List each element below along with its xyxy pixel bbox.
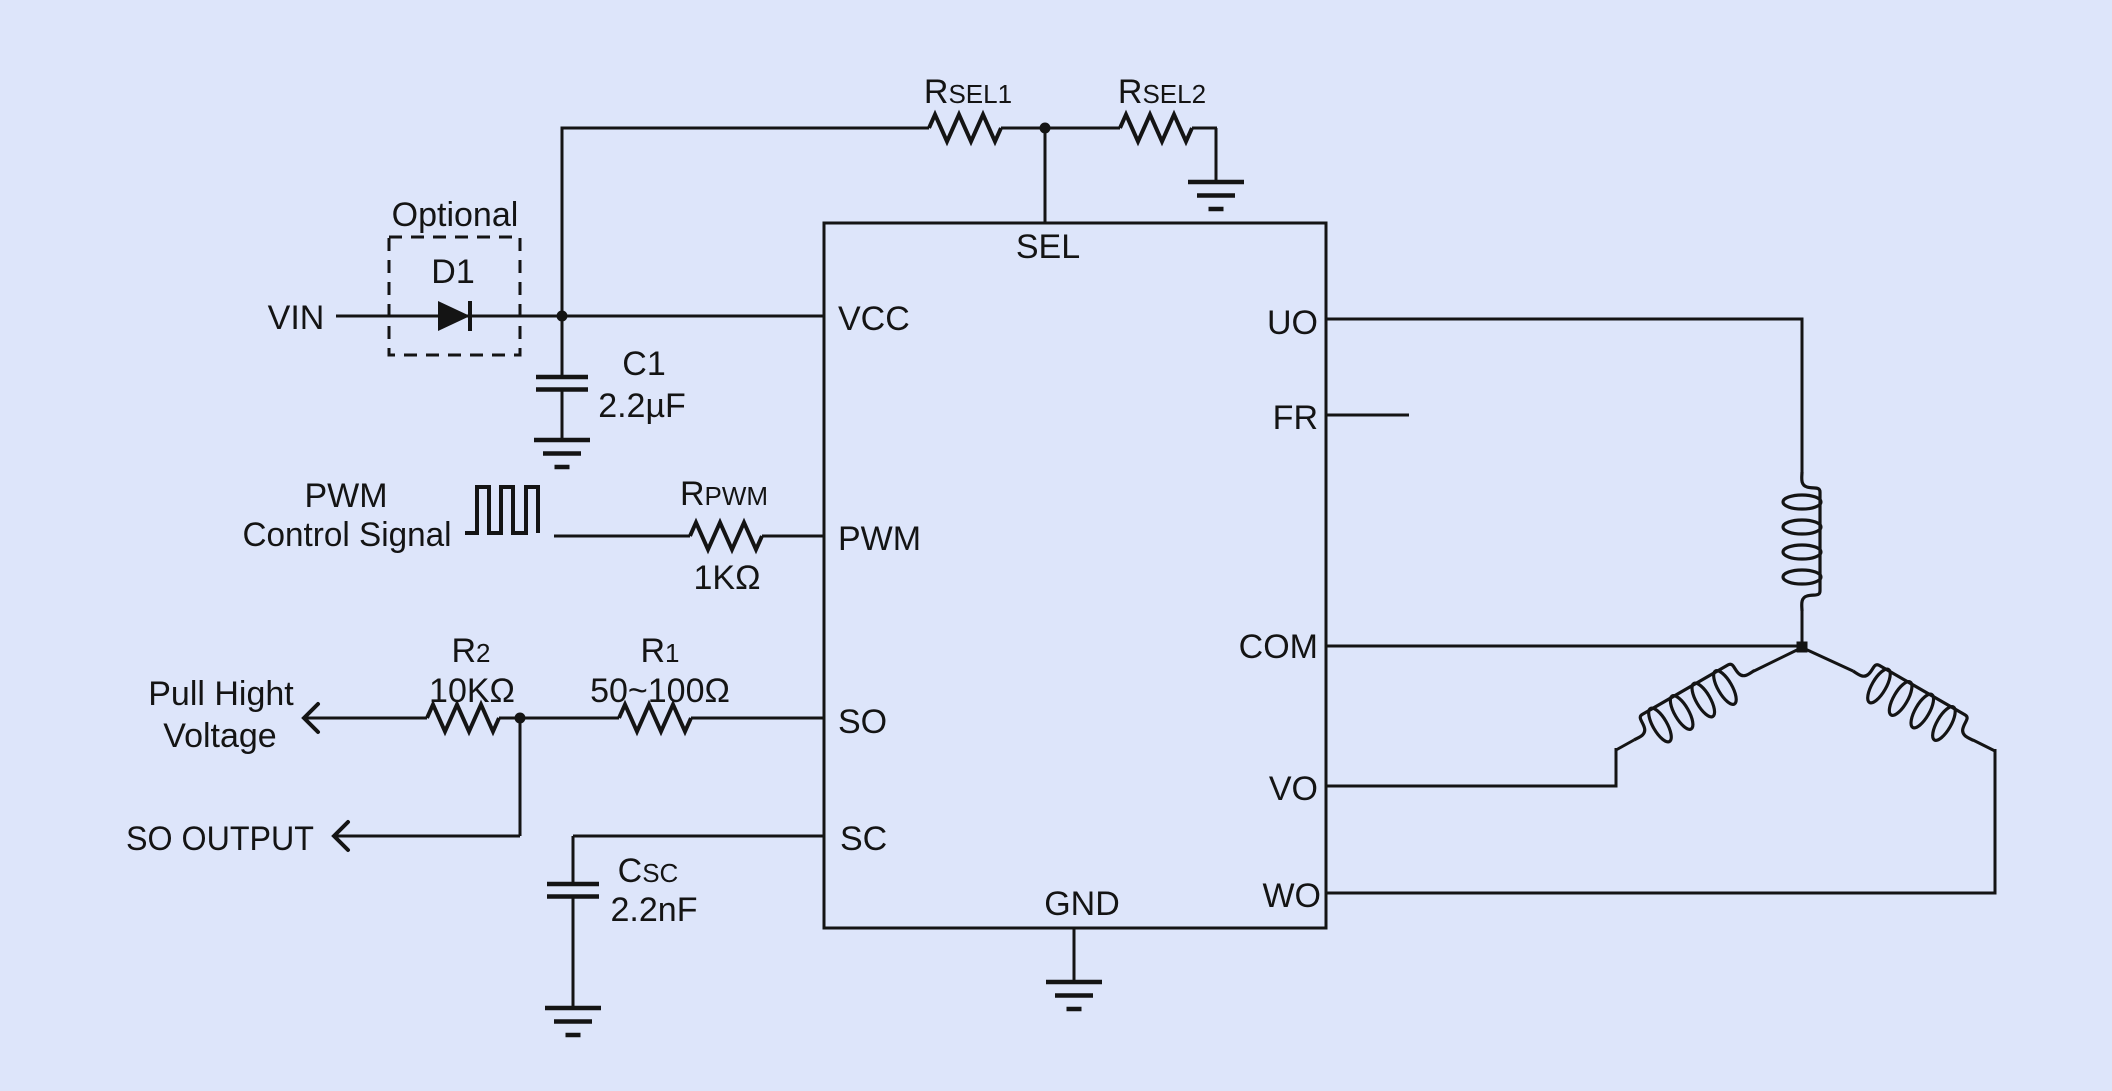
svg-text:SO: SO	[838, 703, 887, 741]
svg-text:COM: COM	[1239, 628, 1318, 666]
resistor RSEL2	[1120, 115, 1192, 142]
svg-text:SO OUTPUT: SO OUTPUT	[126, 820, 314, 858]
svg-text:VIN: VIN	[268, 299, 325, 337]
inductor U winding	[1783, 472, 1821, 611]
wire WO pin to winding	[1326, 892, 1997, 895]
svg-text:WO: WO	[1262, 877, 1321, 915]
wire CSC to ground	[572, 898, 575, 1008]
wire FR stub	[1326, 414, 1409, 417]
ground (C1)	[534, 438, 590, 443]
wire UO to U winding	[1326, 318, 1802, 321]
svg-text:CSC: CSC	[618, 852, 679, 890]
diode D1	[438, 301, 470, 331]
svg-text:SC: SC	[840, 820, 887, 858]
svg-text:10KΩ: 10KΩ	[429, 672, 515, 710]
inductor V winding	[1625, 654, 1764, 756]
svg-text:Pull Hight: Pull Hight	[148, 675, 294, 713]
wire C1 to ground	[561, 391, 564, 440]
svg-text:UO: UO	[1267, 304, 1318, 342]
svg-text:50~100Ω: 50~100Ω	[590, 672, 730, 710]
resistor R1	[619, 705, 691, 732]
svg-text:PWM: PWM	[304, 477, 387, 515]
node VCC junction dot	[557, 311, 568, 322]
wire VO pin to winding	[1326, 785, 1618, 788]
svg-text:Optional: Optional	[392, 196, 519, 234]
wire node SEL down to pin SEL	[1044, 128, 1047, 223]
svg-text:RSEL1: RSEL1	[924, 73, 1012, 111]
svg-text:Voltage: Voltage	[163, 717, 276, 755]
resistor RSEL1	[929, 115, 1001, 142]
svg-text:D1: D1	[431, 253, 474, 291]
wire GND pin to ground	[1073, 928, 1076, 982]
svg-text:R1: R1	[640, 632, 679, 670]
svg-text:RSEL2: RSEL2	[1118, 73, 1206, 111]
ground (GND pin)	[1046, 980, 1102, 985]
resistor RPWM	[690, 523, 762, 550]
wire R2 to node	[499, 717, 520, 720]
wire SC pin to CSC	[573, 835, 824, 838]
ground (RSEL2)	[1188, 180, 1244, 185]
wire star to W winding	[1803, 648, 1853, 671]
wire squarewave to RPWM	[554, 535, 690, 538]
inductor W winding	[1844, 655, 1983, 757]
arrow SO OUTPUT	[334, 822, 348, 850]
capacitor C1	[561, 316, 564, 375]
capacitor CSC	[547, 882, 599, 887]
wire W winding to WO corner	[1973, 740, 1995, 751]
svg-text:RPWM: RPWM	[680, 475, 768, 513]
arrow to pull high voltage	[304, 704, 318, 732]
wire RSEL2 to ground	[1192, 127, 1217, 130]
wire RPWM to PWM pin	[762, 535, 824, 538]
wire VCC node vertical riser to top rail	[561, 128, 564, 316]
wire RSEL1 to node SEL	[1001, 127, 1120, 130]
wire top rail to RSEL1	[561, 127, 930, 130]
wire U winding to star node	[1801, 611, 1804, 644]
svg-text:VCC: VCC	[838, 300, 910, 338]
svg-text:PWM: PWM	[838, 520, 921, 558]
wire VIN to VCC pin	[336, 315, 824, 318]
ground (CSC)	[545, 1006, 601, 1011]
svg-text:FR: FR	[1273, 399, 1318, 437]
optional dashed box	[389, 237, 520, 355]
wire node down to SO OUTPUT rail	[519, 718, 522, 836]
wire star to V winding	[1754, 648, 1801, 671]
svg-text:VO: VO	[1269, 770, 1318, 808]
svg-text:GND: GND	[1044, 885, 1120, 923]
svg-text:2.2µF: 2.2µF	[598, 387, 686, 425]
op-amp/IC driver U1 box	[824, 223, 1326, 928]
node SO divider junction dot	[515, 713, 526, 724]
svg-text:1KΩ: 1KΩ	[693, 559, 760, 597]
svg-text:C1: C1	[622, 345, 665, 383]
PWM square wave symbol	[465, 487, 538, 533]
resistor R2	[427, 705, 499, 732]
svg-text:Control Signal: Control Signal	[243, 516, 452, 554]
node SEL junction dot	[1040, 123, 1051, 134]
wire COM to star node	[1326, 645, 1799, 648]
svg-text:SEL: SEL	[1016, 228, 1080, 266]
wire R1 to SO pin	[691, 717, 824, 720]
wire node to R1	[520, 717, 619, 720]
node star point (motor common)	[1797, 642, 1808, 653]
svg-text:R2: R2	[451, 632, 490, 670]
wire V winding to VO corner	[1616, 740, 1634, 750]
svg-text:2.2nF: 2.2nF	[611, 891, 698, 929]
